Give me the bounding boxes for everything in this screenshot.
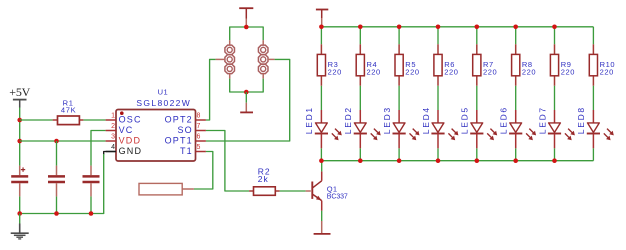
svg-text:LED7: LED7 <box>537 106 547 134</box>
svg-text:Q1: Q1 <box>327 184 338 193</box>
U1 pin 4 GND stub <box>106 144 143 156</box>
svg-text:8: 8 <box>197 113 201 120</box>
wire C2 branch vertical <box>56 141 58 214</box>
svg-text:U1: U1 <box>158 88 169 97</box>
U1 pin 5 T1 stub <box>180 144 206 156</box>
junction bottom rail branch 4 <box>436 158 441 163</box>
wire VDD rail to pin 3 <box>20 140 106 142</box>
junction top rail branch 6 <box>513 25 518 30</box>
wire +5V vertical / C1 branch <box>19 108 21 214</box>
svg-text:BC337: BC337 <box>327 194 348 201</box>
transistor Q1 BC337 <box>312 181 348 201</box>
resistor R8 220 <box>512 44 537 85</box>
svg-text:1: 1 <box>111 113 115 120</box>
wire R2 to Q1 base <box>280 190 311 192</box>
wire C3 lower branch <box>90 196 92 213</box>
op-amp/IC U1 SGL8022W body <box>116 88 196 161</box>
svg-text:LED5: LED5 <box>460 106 470 134</box>
svg-text:6: 6 <box>197 134 201 141</box>
junction top rail branch 2 <box>358 25 363 30</box>
svg-text:LED3: LED3 <box>382 106 392 134</box>
svg-text:LED2: LED2 <box>343 106 353 134</box>
junction ground rail / C3 <box>89 211 94 216</box>
svg-text:SGL8022W: SGL8022W <box>136 98 191 108</box>
junction bottom rail branch 7 <box>552 158 557 163</box>
earth ground symbol <box>11 214 29 239</box>
svg-text:220: 220 <box>600 67 614 76</box>
svg-text:T1: T1 <box>180 146 193 156</box>
junction top rail branch 4 <box>436 25 441 30</box>
LED LED4 <box>421 106 459 148</box>
wire branch 3 verticals <box>398 27 400 161</box>
wire pin 5 T1 to sense resistor <box>194 152 213 190</box>
wire branch 2 verticals <box>359 27 361 161</box>
wire branch 1 verticals <box>320 27 322 161</box>
LED LED2 <box>343 106 381 148</box>
wire touch bottom node <box>230 79 264 92</box>
svg-text:47K: 47K <box>61 105 76 114</box>
svg-text:5: 5 <box>197 144 201 151</box>
resistor R10 220 <box>589 44 615 85</box>
junction VDD rail / C2 <box>54 139 59 144</box>
wire branch 7 verticals <box>554 27 556 161</box>
junction +5V / VDD rail <box>17 139 22 144</box>
svg-text:3: 3 <box>111 134 115 141</box>
connector JP2 pads (right column) <box>258 40 268 78</box>
resistor R4 220 <box>356 44 381 85</box>
wire right pad to pin 6 OPT1 <box>206 59 290 141</box>
svg-text:220: 220 <box>561 67 575 76</box>
wire GND pin 4 down to ground rail <box>20 152 116 214</box>
svg-text:OPT1: OPT1 <box>165 135 193 145</box>
capacitor C2 <box>48 166 65 197</box>
wire pin 8 OPT2 to left pad <box>206 59 225 120</box>
resistor R9 220 <box>550 44 575 85</box>
svg-text:VDD: VDD <box>119 135 142 145</box>
LED LED7 <box>537 106 575 148</box>
svg-text:GND: GND <box>119 146 143 156</box>
junction top rail branch 5 <box>475 25 480 30</box>
capacitor C3 <box>83 166 100 197</box>
svg-text:SO: SO <box>177 125 192 135</box>
LED LED8 <box>576 106 614 148</box>
wire branch 5 verticals <box>476 27 478 161</box>
junction bottom rail / Q1 collector <box>319 158 324 163</box>
junction top rail branch 7 <box>552 25 557 30</box>
svg-text:4: 4 <box>111 144 115 151</box>
wire pin 7 SO to R2 <box>206 131 249 192</box>
svg-text:OPT2: OPT2 <box>165 114 193 124</box>
svg-text:LED8: LED8 <box>576 106 586 134</box>
U1 pin 6 OPT1 stub <box>165 134 206 146</box>
U1 pin 1 OSC stub <box>106 113 142 125</box>
resistor R6 220 <box>434 44 459 85</box>
LED LED6 <box>499 106 537 148</box>
svg-text:LED6: LED6 <box>499 106 509 134</box>
svg-text:+5V: +5V <box>9 85 30 99</box>
wire LED cathode bottom rail <box>321 160 593 162</box>
wire Q1 emitter to ground <box>321 201 323 234</box>
power +5V symbol (right supply) <box>316 10 328 27</box>
wire LED +5V top rail <box>321 26 593 28</box>
resistor R2 <box>249 167 280 196</box>
svg-text:220: 220 <box>444 67 458 76</box>
LED LED5 <box>460 106 498 148</box>
svg-text:VC: VC <box>119 125 134 135</box>
wire branch 6 verticals <box>515 27 517 161</box>
junction touch top node <box>244 25 249 30</box>
svg-text:220: 220 <box>405 67 419 76</box>
junction touch bottom node <box>244 90 249 95</box>
junction top rail branch 3 <box>397 25 402 30</box>
ground bar symbol under Q1 <box>314 233 331 235</box>
resistor R3 220 <box>317 44 342 85</box>
touch-pad antenna symbol (top tee) <box>239 8 253 27</box>
junction ground rail / C2 <box>54 211 59 216</box>
svg-text:2k: 2k <box>258 174 269 184</box>
junction bottom rail branch 5 <box>475 158 480 163</box>
U1 pin 7 SO stub <box>177 123 205 135</box>
wire branch 4 verticals <box>437 27 439 161</box>
resistor R7 220 <box>473 44 498 85</box>
wire touch top node <box>230 27 264 40</box>
junction bottom rail branch 3 <box>397 158 402 163</box>
svg-text:2: 2 <box>111 123 115 130</box>
svg-text:7: 7 <box>197 123 201 130</box>
svg-text:220: 220 <box>522 67 536 76</box>
wire branch 8 verticals <box>592 27 594 161</box>
junction ground rail / C1 / earth <box>17 211 22 216</box>
junction +5V right / rail <box>319 25 324 30</box>
power +5V symbol (left supply) <box>9 85 30 108</box>
connector JP1 pads (left column) <box>225 40 235 78</box>
junction bottom rail branch 6 <box>513 158 518 163</box>
svg-text:220: 220 <box>483 67 497 76</box>
svg-text:OSC: OSC <box>119 114 142 124</box>
svg-text:LED1: LED1 <box>304 106 314 134</box>
svg-text:LED4: LED4 <box>421 106 431 134</box>
wire Q1 collector to LED rail <box>321 161 323 181</box>
ground bar symbol under touch pads <box>240 92 253 112</box>
svg-text:220: 220 <box>367 67 381 76</box>
junction bottom rail branch 2 <box>358 158 363 163</box>
U1 pin 8 OPT2 stub <box>165 113 206 125</box>
resistor (touch sense pad) below U1 <box>139 183 194 195</box>
junction +5V / R1 row <box>17 118 22 123</box>
wire R1 row (OSC net) <box>20 119 106 121</box>
capacitor C1 (polarized) <box>11 166 28 197</box>
resistor R5 220 <box>395 44 420 85</box>
LED LED1 <box>304 106 342 148</box>
U1 pin 3 VDD stub <box>106 134 142 146</box>
wire VC net: pin 2 to C3 <box>91 131 106 166</box>
resistor R1 <box>53 98 84 124</box>
LED LED3 <box>382 106 420 148</box>
svg-text:220: 220 <box>328 67 342 76</box>
U1 pin 2 VC stub <box>106 123 134 135</box>
